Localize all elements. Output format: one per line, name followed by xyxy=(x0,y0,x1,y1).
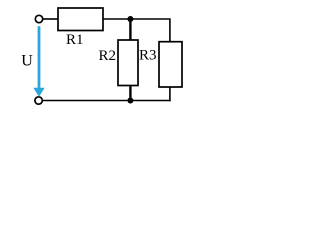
wire: R3 bottom stem xyxy=(169,87,171,101)
resistor R3 xyxy=(159,42,182,87)
svg-text:R2: R2 xyxy=(99,48,117,64)
wire: R1 to top-right corner and down to R3 xyxy=(103,19,170,42)
resistor R1 xyxy=(58,8,103,31)
voltage arrow U xyxy=(38,26,41,89)
wire: junction stem down to R2 xyxy=(129,19,131,40)
wire: bottom rail xyxy=(42,100,170,102)
svg-text:U: U xyxy=(21,52,33,69)
node: bottom junction xyxy=(127,98,133,104)
node: top junction xyxy=(127,16,133,22)
wire: top terminal to R1 xyxy=(43,18,58,20)
svg-text:R3: R3 xyxy=(139,47,157,63)
svg-text:R1: R1 xyxy=(66,32,84,48)
wire: R2 bottom stem xyxy=(129,86,131,101)
resistor R2 xyxy=(118,40,138,86)
terminal: bottom xyxy=(35,97,42,104)
terminal: top xyxy=(35,15,42,22)
